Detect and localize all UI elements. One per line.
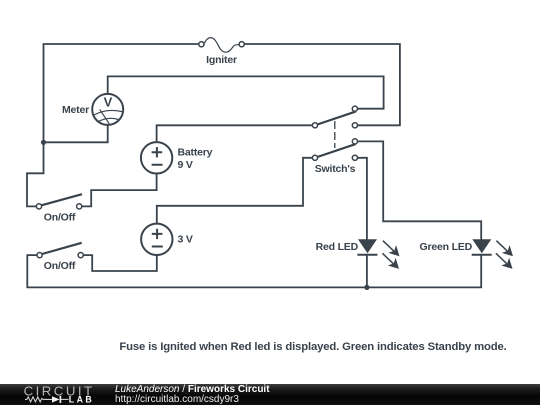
footer url bbox=[115, 394, 239, 405]
CircuitLab logo bbox=[0, 380, 120, 405]
svg-text:Green LED: Green LED bbox=[420, 241, 473, 253]
svg-text:Battery: Battery bbox=[178, 147, 213, 159]
voltmeter M1 bbox=[92, 94, 123, 125]
dashed gang link of DPDT switch bbox=[334, 121, 336, 148]
switch SW3b (bottom half of DPDT) bbox=[312, 139, 357, 161]
LED D1 Red bbox=[357, 239, 399, 269]
svg-text:3 V: 3 V bbox=[178, 234, 193, 246]
junction dot node B (bottom rail / red LED) bbox=[364, 285, 369, 290]
LED D2 Green bbox=[472, 239, 513, 269]
battery V2 3V bbox=[141, 224, 172, 255]
wire bottom switch upper-right contact to green LED anode bbox=[358, 141, 481, 238]
wire red LED cathode to bottom rail bbox=[366, 255, 368, 288]
wire meter bottom to left junction bbox=[44, 125, 108, 143]
footer attribution text bbox=[115, 384, 270, 395]
junction dot node A (meter tap) bbox=[41, 140, 46, 145]
switch SW1 On/Off bbox=[36, 194, 82, 209]
fuse F1 Igniter bbox=[199, 38, 245, 53]
switch SW2 On/Off bbox=[37, 243, 83, 258]
svg-text:Switch's: Switch's bbox=[315, 163, 356, 175]
wire SW1 right contact to 9V battery negative bbox=[82, 174, 157, 207]
svg-text:Meter: Meter bbox=[62, 104, 89, 116]
label Battery 9 V bbox=[178, 147, 213, 172]
svg-text:Igniter: Igniter bbox=[206, 54, 237, 66]
footer bar bbox=[0, 384, 540, 405]
svg-text:Fuse is Ignited when Red led i: Fuse is Ignited when Red led is displaye… bbox=[119, 341, 506, 353]
wire 9V battery positive to top switch common contact bbox=[157, 125, 313, 142]
switch SW3a (top half of DPDT) bbox=[312, 106, 357, 128]
svg-text:On/Off: On/Off bbox=[44, 260, 76, 272]
wire SW2 left contact to bottom rail and rail to green LED cathode bbox=[27, 255, 481, 287]
battery V1 9V bbox=[141, 142, 172, 173]
wire 3V battery positive to bottom switch common contact bbox=[157, 158, 312, 224]
wire SW2 right contact to 3V battery negative bbox=[84, 255, 157, 271]
wire top-left: junction to igniter left terminal bbox=[44, 44, 199, 142]
svg-text:On/Off: On/Off bbox=[44, 212, 76, 224]
wire bottom switch lower-right contact to red LED anode bbox=[358, 158, 367, 239]
svg-text:V: V bbox=[104, 95, 113, 110]
svg-text:LAB: LAB bbox=[69, 394, 94, 404]
wire left junction down to switch SW1 left contact bbox=[27, 142, 44, 206]
svg-text:9 V: 9 V bbox=[178, 159, 193, 171]
wire igniter right terminal to top switch lower-right contact bbox=[244, 44, 400, 125]
svg-text:Red LED: Red LED bbox=[316, 241, 359, 253]
wire meter top to top switch upper-right contact bbox=[108, 76, 384, 108]
